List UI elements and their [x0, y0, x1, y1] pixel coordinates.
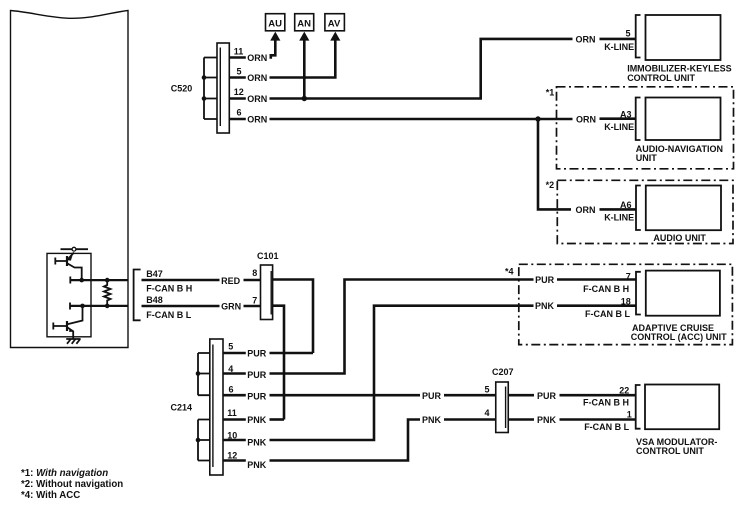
svg-text:PUR: PUR: [537, 391, 557, 401]
svg-text:K-LINE: K-LINE: [604, 42, 634, 52]
svg-text:AUDIO UNIT: AUDIO UNIT: [653, 233, 706, 243]
svg-text:F-CAN B L: F-CAN B L: [146, 310, 191, 320]
svg-text:PNK: PNK: [247, 438, 267, 448]
svg-text:UNIT: UNIT: [636, 153, 657, 163]
svg-text:A3: A3: [620, 109, 632, 119]
svg-text:5: 5: [626, 29, 631, 39]
svg-text:4: 4: [228, 364, 233, 374]
svg-text:ORN: ORN: [576, 205, 596, 215]
svg-text:*1: With navigation: *1: With navigation: [21, 468, 108, 479]
svg-text:11: 11: [227, 408, 237, 418]
svg-text:PNK: PNK: [247, 460, 267, 470]
svg-text:CONTROL UNIT: CONTROL UNIT: [627, 73, 695, 83]
svg-text:6: 6: [237, 108, 242, 118]
svg-text:*4: *4: [505, 266, 514, 276]
svg-text:ORN: ORN: [576, 114, 596, 124]
svg-text:B48: B48: [146, 295, 163, 305]
svg-text:PUR: PUR: [247, 392, 267, 402]
svg-text:PNK: PNK: [537, 415, 557, 425]
svg-text:1: 1: [627, 410, 632, 420]
svg-text:ORN: ORN: [247, 73, 267, 83]
svg-text:4: 4: [485, 408, 490, 418]
svg-text:A6: A6: [620, 200, 632, 210]
svg-text:F-CAN B L: F-CAN B L: [585, 309, 630, 319]
svg-text:C520: C520: [171, 84, 193, 94]
svg-text:*2: *2: [546, 180, 555, 190]
svg-text:F-CAN B H: F-CAN B H: [583, 284, 629, 294]
svg-text:C101: C101: [257, 251, 279, 261]
svg-text:C214: C214: [171, 403, 193, 413]
svg-text:AN: AN: [297, 19, 311, 30]
svg-text:7: 7: [626, 271, 631, 281]
svg-text:5: 5: [237, 67, 242, 77]
svg-text:ORN: ORN: [247, 53, 267, 63]
svg-text:*4: With ACC: *4: With ACC: [21, 490, 80, 501]
svg-text:AV: AV: [328, 19, 341, 30]
svg-text:5: 5: [228, 342, 233, 352]
svg-text:12: 12: [234, 87, 244, 97]
svg-text:PNK: PNK: [535, 301, 555, 311]
svg-text:ORN: ORN: [247, 94, 267, 104]
svg-text:PUR: PUR: [247, 349, 267, 359]
svg-text:10: 10: [227, 431, 237, 441]
svg-text:7: 7: [252, 295, 257, 305]
svg-text:ORN: ORN: [247, 115, 267, 125]
svg-text:PUR: PUR: [247, 370, 267, 380]
svg-text:11: 11: [234, 47, 244, 57]
svg-text:AU: AU: [268, 19, 282, 30]
svg-text:*2: Without navigation: *2: Without navigation: [21, 479, 123, 490]
svg-text:PNK: PNK: [422, 415, 442, 425]
svg-text:F-CAN B H: F-CAN B H: [146, 284, 192, 294]
svg-text:12: 12: [227, 451, 237, 461]
svg-text:GRN: GRN: [221, 301, 241, 311]
svg-text:CONTROL UNIT: CONTROL UNIT: [636, 446, 704, 456]
svg-text:5: 5: [485, 385, 490, 395]
svg-text:F-CAN B H: F-CAN B H: [583, 398, 629, 408]
svg-text:PUR: PUR: [422, 391, 442, 401]
svg-text:K-LINE: K-LINE: [604, 122, 634, 132]
svg-text:18: 18: [621, 296, 631, 306]
svg-text:ORN: ORN: [576, 34, 596, 44]
svg-text:22: 22: [619, 386, 629, 396]
svg-text:6: 6: [229, 385, 234, 395]
svg-text:B47: B47: [146, 269, 163, 279]
svg-text:K-LINE: K-LINE: [604, 213, 634, 223]
svg-text:CONTROL (ACC) UNIT: CONTROL (ACC) UNIT: [631, 332, 727, 342]
svg-text:PNK: PNK: [247, 415, 267, 425]
svg-text:RED: RED: [221, 276, 241, 286]
svg-text:PUR: PUR: [535, 275, 555, 285]
svg-text:*1: *1: [546, 87, 555, 97]
svg-text:8: 8: [252, 268, 257, 278]
svg-text:C207: C207: [492, 367, 514, 377]
svg-text:F-CAN B L: F-CAN B L: [584, 422, 629, 432]
